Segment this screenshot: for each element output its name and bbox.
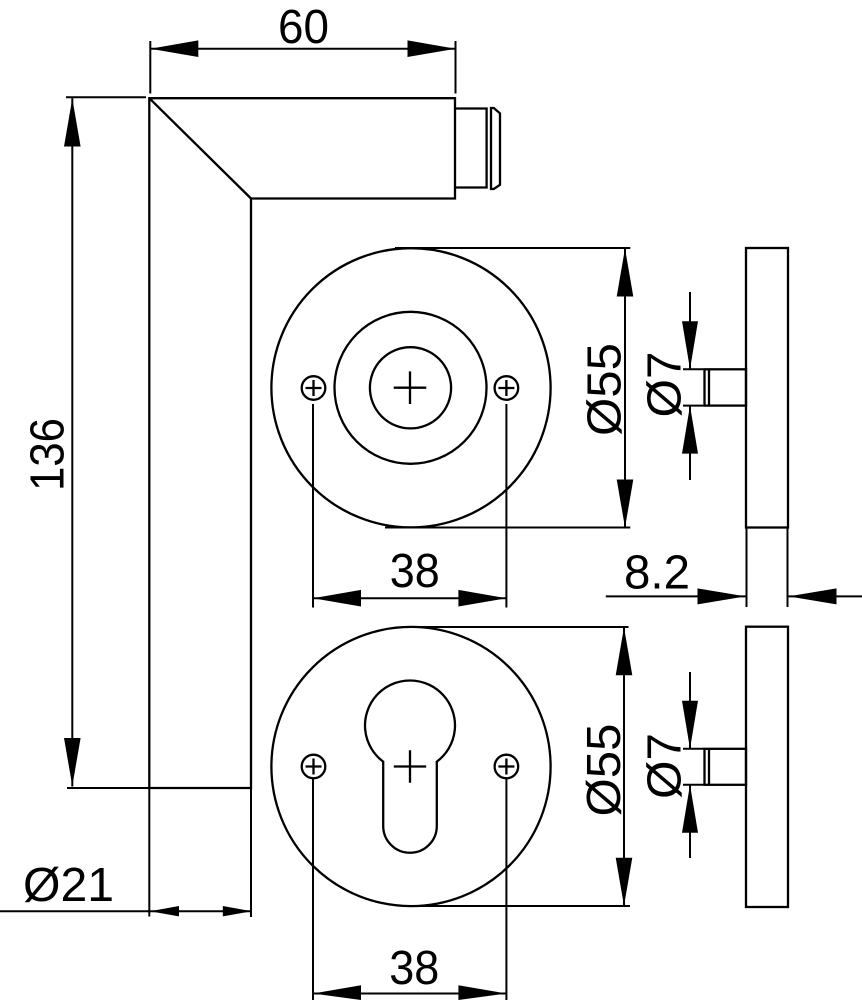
svg-text:60: 60	[278, 1, 329, 54]
dim 38 top line	[313, 597, 506, 599]
rosette 2 outer circle	[271, 627, 550, 906]
svg-text:38: 38	[390, 545, 440, 598]
arrow 60 right	[408, 40, 456, 57]
dim O55 top extension lines	[385, 248, 630, 528]
dim 8.2 line right	[789, 595, 862, 597]
rosette 2 left screw	[302, 755, 326, 779]
side view 1 stem	[705, 369, 747, 405]
svg-text:38: 38	[389, 942, 439, 995]
arrow 38 top left	[313, 590, 361, 607]
rosette 1 right screw	[495, 376, 519, 400]
handle spindle cap	[491, 108, 500, 189]
svg-text:Ø21: Ø21	[23, 859, 114, 912]
handle mitre diagonal	[149, 98, 251, 198]
dim 38 bottom line	[313, 993, 506, 995]
svg-text:Ø7: Ø7	[639, 352, 692, 418]
dim 8.2 extension lines	[747, 528, 788, 608]
arrow 38 top right	[458, 590, 506, 607]
rosette 1 center cross	[394, 371, 427, 404]
dim O55 bottom extension lines	[412, 627, 630, 906]
dim O21 extension lines	[149, 788, 251, 917]
arrow O55 bottom up	[616, 627, 633, 675]
dim O21 line	[0, 910, 252, 912]
dim 136 line	[71, 98, 73, 786]
rosette 2 euro profile keyhole	[365, 681, 455, 853]
side view 2 plate	[746, 627, 788, 907]
arrow O55 top down	[617, 480, 634, 528]
dim 38 bottom extension lines	[313, 779, 506, 1000]
dim O7 bottom line	[689, 672, 691, 858]
dim O7 top extension ticks	[683, 369, 704, 405]
arrow O55 bottom down	[616, 858, 633, 906]
dim O55 bottom line	[623, 627, 625, 906]
svg-text:Ø7: Ø7	[639, 733, 692, 799]
rosette 1 middle circle	[335, 312, 487, 464]
arrow 38 bottom left	[313, 985, 361, 1000]
dim 136 extension lines	[66, 97, 149, 788]
arrow 136 down	[64, 738, 81, 786]
arrow 38 bottom right	[458, 985, 506, 1000]
rosette 2 center cross	[394, 750, 426, 782]
arrow 136 up	[64, 99, 81, 147]
svg-text:8.2: 8.2	[624, 546, 690, 599]
arrow 8.2 right	[789, 588, 837, 604]
dim 8.2 line left	[606, 595, 746, 597]
arrow O7 bottom upper	[682, 701, 698, 749]
arrow O55 top up	[617, 249, 634, 297]
side view 2 stem	[705, 749, 747, 785]
rosette 1 outer circle	[271, 248, 550, 527]
handle lever outline	[149, 98, 455, 788]
side view 1 stem seam	[708, 369, 710, 405]
svg-text:136: 136	[21, 418, 74, 491]
dim O55 top line	[624, 249, 626, 528]
arrow 8.2 left	[698, 588, 746, 604]
arrow O21 left	[150, 906, 179, 916]
dim O7 top line	[689, 292, 691, 480]
handle neck cylinder	[455, 109, 487, 188]
dim 60 extension lines	[150, 41, 455, 94]
rosette 2 right screw	[495, 755, 519, 779]
rosette 1 left screw	[302, 376, 326, 400]
dim 38 top extension lines	[313, 404, 506, 608]
arrow O7 bottom lower	[682, 785, 698, 833]
svg-text:Ø55: Ø55	[578, 724, 631, 817]
arrow O7 top upper	[682, 321, 698, 369]
arrow O7 top lower	[682, 406, 698, 454]
side view 1 plate	[746, 248, 788, 528]
dim O7 bottom extension ticks	[683, 749, 704, 785]
arrow 60 left	[150, 40, 198, 57]
dim 60 line	[150, 48, 455, 50]
arrow O21 right	[223, 906, 252, 916]
side view 2 stem seam	[708, 749, 710, 785]
svg-text:Ø55: Ø55	[579, 343, 632, 436]
rosette 1 inner circle	[370, 347, 451, 428]
